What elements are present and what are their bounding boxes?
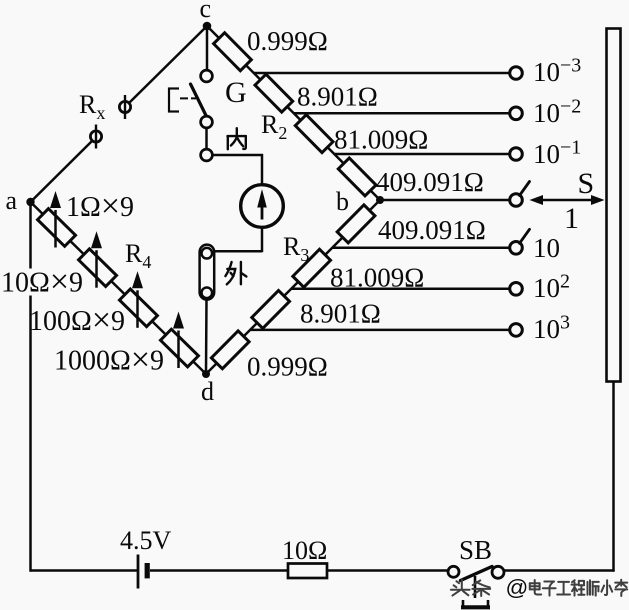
external terminal upper circle — [202, 248, 213, 259]
external galvanometer terminals capsule (外) — [200, 245, 215, 300]
adjust arrow of R4 section 3 — [132, 271, 143, 328]
wire galvanometer to external terminals — [213, 227, 262, 252]
wire node b to selector contact — [380, 199, 510, 202]
svg-text:d: d — [201, 377, 214, 406]
selector bar S — [607, 29, 621, 382]
svg-text:c: c — [200, 0, 212, 23]
resistor R2 section 4 (409.091Ω) — [338, 158, 376, 196]
wire b-d (R3 chain diagonal) — [206, 200, 380, 374]
resistor R3 section 4 (0.999Ω) — [211, 331, 249, 369]
resistor R4 section 4 (1000Ω×9) — [160, 329, 198, 367]
resistor R2 section 1 (0.999Ω) — [214, 33, 252, 71]
wire right: selector bar to bottom-right corner — [612, 382, 615, 572]
battery 4.5V — [138, 555, 150, 589]
svg-text:409.091Ω: 409.091Ω — [376, 167, 484, 197]
svg-text:1000Ω×9: 1000Ω×9 — [54, 342, 164, 379]
watermark 头条 icon text — [451, 580, 627, 596]
binding post 2 of Rx (upper) — [119, 95, 130, 119]
adjust arrow of R4 section 2 — [91, 231, 102, 288]
resistor R3 section 1 (409.091Ω) — [337, 205, 375, 243]
SB left contact — [448, 566, 459, 577]
svg-text:0.999Ω: 0.999Ω — [247, 26, 328, 56]
external terminal lower circle — [202, 288, 213, 299]
resistor 10Ω — [288, 564, 327, 579]
wire tap 10^-3 — [254, 72, 510, 75]
wire external terminals to node d — [205, 300, 208, 372]
wire a-c (Rx branch upper segment) — [130, 26, 208, 103]
selector contact 10^-1 — [510, 148, 523, 161]
svg-text:SB: SB — [459, 535, 492, 565]
svg-text:@: @ — [506, 575, 529, 600]
wire bottom: SB right contact to right corner — [504, 569, 615, 572]
wire bottom: battery to 10ohm resistor — [150, 569, 288, 572]
push-button linkage bracket — [168, 88, 179, 113]
selector contact b-row — [510, 182, 530, 207]
adjust arrow of R4 section 4 — [173, 312, 184, 369]
node d — [202, 370, 210, 378]
svg-text:G: G — [225, 76, 247, 109]
selector contact 10^2 — [510, 283, 523, 296]
svg-text:8.901Ω: 8.901Ω — [300, 299, 381, 329]
wire a-d (R4 chain diagonal) — [31, 202, 207, 374]
wire G switch middle to inner contact — [205, 128, 208, 149]
svg-text:409.091Ω: 409.091Ω — [378, 215, 486, 245]
wire a-c (Rx branch lower segment) — [31, 142, 92, 203]
svg-text:100Ω×9: 100Ω×9 — [29, 302, 125, 339]
resistor R3 section 2 (81.009Ω) — [293, 249, 331, 287]
resistor R4 section 1 (1Ω×9) — [38, 209, 76, 247]
node a — [26, 198, 34, 206]
svg-text:10Ω×9: 10Ω×9 — [1, 264, 83, 301]
inner galvanometer contact (内) — [201, 149, 213, 161]
svg-text:1Ω×9: 1Ω×9 — [66, 188, 134, 225]
G switch blade — [191, 84, 207, 116]
wire tap 10^2 — [291, 288, 510, 291]
wire tap 10^-2 — [294, 112, 510, 115]
svg-text:10: 10 — [533, 233, 560, 263]
svg-text:S: S — [578, 167, 595, 200]
wire a to bottom-left corner (lower) — [29, 296, 32, 572]
svg-text:1: 1 — [564, 202, 579, 235]
selector contact 10 — [510, 229, 530, 254]
wire bottom: corner to battery — [30, 569, 139, 572]
node c — [203, 22, 212, 31]
resistor R4 section 2 (10Ω×9) — [79, 249, 117, 287]
binding post 1 of Rx (lower) — [90, 125, 101, 149]
label 内 (internal) — [228, 128, 246, 149]
SB button cap — [461, 600, 490, 607]
resistor R2 section 3 (81.009Ω) — [295, 115, 333, 153]
selector contact 10^-2 — [510, 107, 523, 120]
push-button linkage dashed link — [180, 97, 196, 99]
svg-text:0.999Ω: 0.999Ω — [247, 352, 328, 382]
wire bottom: 10ohm to SB left contact — [327, 569, 448, 572]
wire a to bottom-left corner (upper) — [29, 202, 32, 269]
svg-text:81.009Ω: 81.009Ω — [334, 125, 428, 155]
svg-text:8.901Ω: 8.901Ω — [297, 82, 378, 112]
svg-text:a: a — [6, 186, 18, 215]
selector contact 10^-3 — [510, 67, 523, 80]
resistor R3 section 3 (8.901Ω) — [252, 290, 290, 328]
resistor R4 section 3 (100Ω×9) — [119, 289, 157, 327]
SB button stem — [474, 576, 477, 598]
G switch top contact — [201, 70, 213, 82]
galvanometer G meter — [241, 185, 284, 228]
node b — [376, 196, 384, 204]
wire tap 10 — [332, 247, 510, 250]
G switch middle contact — [201, 116, 213, 128]
svg-text:b: b — [336, 187, 349, 216]
wire inner contact to galvanometer — [212, 154, 263, 184]
SB blade — [461, 567, 493, 581]
adjust arrow of R4 section 1 — [50, 191, 61, 248]
wire c-b (R2 chain diagonal) — [207, 26, 380, 200]
svg-text:4.5V: 4.5V — [120, 526, 172, 555]
label 外 (external) — [225, 262, 246, 284]
selector contact 10^3 — [510, 324, 523, 337]
wire tap 10^-1 — [334, 153, 510, 156]
wire tap 10^3 — [250, 329, 510, 332]
selector wiper arrow S — [530, 195, 605, 205]
resistor R2 section 2 (8.901Ω) — [255, 74, 293, 112]
wire c to G switch — [206, 26, 209, 70]
svg-text:81.009Ω: 81.009Ω — [330, 263, 424, 293]
SB right contact — [492, 566, 504, 578]
svg-text:10Ω: 10Ω — [282, 536, 327, 565]
